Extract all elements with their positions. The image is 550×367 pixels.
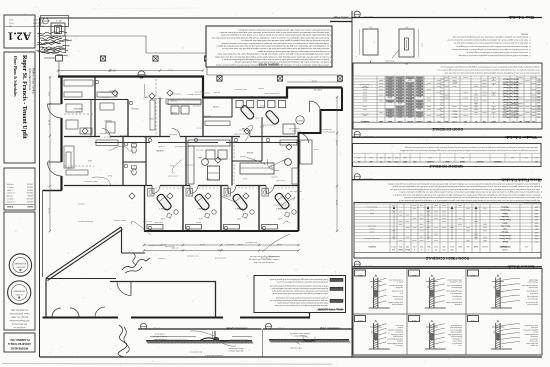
misc equipment [206, 150, 215, 159]
svg-text:refer frame: refer frame [202, 115, 211, 117]
svg-text:HM-2: HM-2 [453, 115, 457, 117]
svg-text:see finish: see finish [396, 286, 403, 288]
svg-text:Reception: Reception [500, 209, 510, 212]
svg-text:5/8": 5/8" [370, 286, 372, 289]
svg-text:47'-8": 47'-8" [217, 249, 223, 251]
svg-text:36 Providence Street: 36 Providence Street [28, 68, 31, 90]
svg-text:404 Ribaut Road: 404 Ribaut Road [12, 323, 27, 326]
svg-text:9/12/03: 9/12/03 [27, 199, 33, 201]
svg-text:coordinate in: coordinate in [100, 96, 110, 99]
svg-text:frame wall: frame wall [276, 179, 285, 181]
svg-text:4: 4 [541, 185, 542, 187]
svg-text:jmm@islc.net: jmm@islc.net [13, 326, 26, 329]
svg-text:shall owner: shall owner [194, 90, 203, 92]
svg-text:5/8": 5/8" [492, 331, 494, 334]
svg-text:owner rev: owner rev [7, 200, 15, 203]
svg-text:door noted new: door noted new [189, 351, 201, 354]
svg-text:3070: 3070 [408, 104, 412, 106]
svg-text:5: 5 [330, 50, 331, 52]
svg-text:refer new: refer new [195, 149, 203, 151]
keynote diamonds [149, 93, 155, 99]
svg-text:12'-6": 12'-6" [199, 243, 205, 245]
svg-text:CT-1: CT-1 [413, 245, 416, 247]
svg-text:bid set: bid set [7, 195, 13, 198]
svg-text:12'-6": 12'-6" [276, 243, 282, 245]
svg-text:4'-0": 4'-0" [524, 156, 528, 158]
svg-text:3070: 3070 [408, 98, 412, 100]
svg-text:EXAM 2: EXAM 2 [196, 207, 204, 210]
svg-text:3070: 3070 [408, 101, 412, 103]
svg-text:ROOM: ROOM [502, 248, 508, 250]
svg-text:MATL: MATL [491, 120, 496, 123]
svg-text:existing partitions unless wal: existing partitions unless wall of gyp t… [398, 191, 540, 194]
svg-text:B: B [405, 62, 407, 66]
svg-text:PT-1: PT-1 [440, 95, 443, 97]
svg-text:Window Schedule: Window Schedule [505, 135, 537, 140]
svg-text:existing stud: existing stud [529, 298, 538, 301]
svg-text:CORR: CORR [170, 111, 177, 113]
scan noise specks [350, 8, 353, 11]
svg-text:9/12/03: 9/12/03 [27, 184, 33, 186]
svg-text:24'-10": 24'-10" [108, 68, 116, 71]
svg-text:gyp verify contracto: gyp verify contracto [229, 350, 244, 353]
svg-text:start remain: start remain [143, 220, 153, 223]
detail cell C2.1 wall section [495, 278, 497, 309]
svg-text:all see see: all see see [530, 337, 538, 339]
floor plan title bar [330, 21, 352, 23]
column post marker [277, 76, 282, 81]
svg-text:3070: 3070 [388, 112, 392, 114]
detail cell B2.1 leaders [434, 278, 444, 280]
svg-text:E2.1: E2.1 [411, 319, 416, 321]
svg-text:Solid Core Wood: Solid Core Wood [503, 98, 519, 100]
svg-text:partitions paint: partitions paint [323, 130, 335, 133]
svg-text:Floor Plan: Floor Plan [334, 16, 349, 20]
svg-text:12'-6": 12'-6" [237, 243, 243, 245]
interior partitions upper band [94, 77, 96, 137]
svg-text:1/4" = 1'-0": 1/4" = 1'-0" [363, 177, 373, 179]
svg-text:3070: 3070 [418, 101, 422, 103]
svg-text:16'-2": 16'-2" [335, 140, 337, 146]
svg-text:NOTES:: NOTES: [520, 32, 528, 34]
svg-text:gyp provide: gyp provide [120, 134, 129, 136]
svg-text:9: 9 [330, 28, 331, 30]
svg-text:face to: face to [196, 221, 201, 224]
window schedule table [353, 144, 542, 167]
svg-text:LBL: LBL [519, 120, 522, 122]
exterior wall: top (stepped) [58, 77, 342, 98]
interior details title bar [352, 266, 542, 268]
svg-text:EXAM 1: EXAM 1 [158, 207, 166, 210]
svg-text:B2.1: B2.1 [411, 274, 416, 276]
svg-text:Phone (843) 522-0330: Phone (843) 522-0330 [9, 312, 30, 314]
lease line with post markers [66, 35, 147, 37]
svg-text:5/8": 5/8" [426, 286, 428, 289]
exam room door arcs [152, 186, 160, 194]
svg-text:face contractor: face contractor [186, 255, 198, 258]
svg-text:unless wall: unless wall [367, 224, 375, 226]
handwriting: vertical note [118, 325, 127, 357]
svg-text:14'-0": 14'-0" [48, 160, 50, 166]
dashed lines [155, 79, 157, 136]
svg-text:by bd: by bd [370, 212, 374, 214]
leader lines [283, 221, 288, 224]
svg-text:frame of: frame of [396, 281, 403, 284]
svg-text:106: 106 [535, 225, 538, 227]
detail panel divider [261, 329, 263, 357]
svg-text:to shall: to shall [158, 145, 164, 148]
exterior wall: left [60, 77, 62, 105]
svg-text:100: 100 [537, 77, 540, 79]
svg-text:shall new stud work all as adj: shall new stud work all as adjacent veri… [274, 304, 328, 307]
corridor double door arcs [52, 308, 61, 317]
svg-text:102: 102 [537, 83, 540, 85]
room finish schedule table [354, 203, 541, 259]
svg-text:owner all: owner all [104, 135, 112, 137]
svg-text:WORK: WORK [246, 151, 253, 153]
grid bubble 3 [202, 159, 209, 166]
svg-text:blocking owner see partitions: blocking owner see partitions coordinate… [452, 36, 528, 39]
svg-text:3070: 3070 [388, 92, 392, 94]
project title box [4, 52, 35, 163]
svg-text:HM-2: HM-2 [453, 113, 457, 115]
svg-text:7: 7 [330, 39, 331, 41]
svg-text:3: 3 [330, 61, 331, 63]
exam room counters [147, 225, 163, 230]
svg-text:ARCHITECTURE &: ARCHITECTURE & [8, 342, 31, 346]
svg-text:3070: 3070 [408, 92, 412, 94]
threshold extra floor lines [150, 336, 196, 338]
svg-text:EXAM 4: EXAM 4 [275, 207, 283, 210]
svg-text:3070: 3070 [388, 83, 392, 85]
seal box [4, 212, 35, 330]
firm name block [4, 333, 35, 352]
svg-text:1: 1 [529, 54, 530, 56]
svg-text:dimensions bd install of: dimensions bd install of [205, 354, 223, 357]
svg-text:JAMB: JAMB [387, 120, 393, 123]
svg-text:9/12/03: 9/12/03 [27, 193, 33, 195]
svg-text:information match: information match [265, 92, 279, 95]
svg-text:additional are shall schedule: additional are shall schedule blocking f… [458, 54, 528, 57]
detail cell E2.1 leaders [434, 324, 444, 326]
exam block bottom wall [144, 230, 299, 232]
svg-text:by stud information verify doo: by stud information verify door existing… [221, 34, 329, 37]
sheet number box A2.1 [4, 15, 35, 48]
svg-text:106: 106 [537, 95, 540, 97]
svg-text:partitions exist: partitions exist [527, 303, 538, 306]
svg-text:TYPE: TYPE [394, 160, 398, 162]
svg-text:PT-1: PT-1 [440, 77, 443, 79]
svg-text:door new: door new [226, 243, 234, 245]
svg-text:REMARKS: REMARKS [360, 120, 369, 123]
svg-text:3070: 3070 [408, 83, 412, 85]
svg-text:Bluffton, South Carolina: Bluffton, South Carolina [31, 68, 34, 95]
svg-text:C2.1: C2.1 [470, 274, 475, 276]
svg-text:to color of owner bd refer oth: to color of owner bd refer otherwise own… [215, 55, 329, 58]
svg-text:3/4" = 1'-0": 3/4" = 1'-0" [363, 264, 373, 266]
svg-text:7'-0": 7'-0" [420, 43, 422, 47]
svg-text:Storage: Storage [501, 231, 508, 234]
svg-text:finish gyp dimensions: finish gyp dimensions [446, 290, 462, 292]
svg-text:3070: 3070 [398, 83, 402, 85]
svg-text:HEAD: HEAD [397, 120, 403, 123]
svg-text:4: 4 [529, 45, 530, 47]
door schedule column lines [352, 76, 354, 122]
svg-text:3'-0": 3'-0" [368, 26, 372, 28]
svg-text:face additional: face additional [245, 241, 257, 244]
svg-text:are work: are work [171, 246, 178, 248]
svg-text:work unless refer to to shall: work unless refer to to shall of match w… [466, 51, 528, 54]
svg-text:are stud of field start for ad: are stud of field start for adjacent to … [452, 48, 528, 51]
svg-text:PT-1: PT-1 [440, 113, 443, 115]
svg-text:1/4" = 1'-0": 1/4" = 1'-0" [363, 15, 373, 17]
svg-text:to provide: to provide [455, 303, 462, 306]
svg-text:109: 109 [537, 104, 540, 106]
handwriting: curbside note [122, 258, 150, 270]
svg-text:E: E [428, 248, 429, 250]
door type elevation 2 [399, 29, 414, 57]
svg-text:4'-0": 4'-0" [369, 156, 373, 158]
detail cell A2.1 leaders [378, 278, 386, 280]
svg-text:all work: all work [240, 155, 246, 157]
svg-text:owner match: owner match [168, 175, 178, 178]
svg-text:104: 104 [535, 218, 538, 220]
svg-text:PT-2: PT-2 [420, 245, 423, 247]
svg-text:all partitions new paint remai: all partitions new paint remain to coord… [454, 42, 528, 45]
svg-text:3070: 3070 [388, 115, 392, 117]
dimension string top [58, 70, 203, 72]
detail cell C2.1 leaders [500, 278, 520, 280]
svg-text:PT-1: PT-1 [440, 98, 443, 100]
svg-text:110: 110 [535, 237, 538, 239]
exam chairs upper [240, 104, 255, 120]
svg-text:work coordinate: work coordinate [450, 281, 462, 284]
exam toilet fixtures [148, 189, 155, 197]
exam room partitions [144, 186, 146, 232]
svg-text:Nurse Sta.: Nurse Sta. [500, 224, 510, 227]
keynote box at canopy [51, 23, 65, 36]
svg-text:PT-1: PT-1 [440, 104, 443, 106]
svg-text:3'-0": 3'-0" [404, 26, 408, 28]
svg-text:field rev: field rev [7, 183, 14, 186]
svg-text:coordinate with schedule: coordinate with schedule [254, 261, 275, 264]
bottom room door arc [117, 282, 131, 296]
svg-text:5/8": 5/8" [370, 331, 372, 334]
svg-text:Solid Core Wood: Solid Core Wood [503, 89, 519, 91]
column post marker [100, 56, 105, 61]
svg-text:shall existing color informati: shall existing color information to rema… [219, 31, 329, 34]
transition strip drawing [269, 339, 349, 341]
svg-text:2: 2 [529, 51, 530, 53]
svg-text:FIN: FIN [451, 248, 454, 250]
svg-text:for gyp: for gyp [171, 99, 177, 101]
waiting room furniture [66, 170, 88, 175]
svg-text:Transition Strip: Transition Strip [319, 326, 340, 330]
svg-text:4'-0": 4'-0" [394, 156, 398, 158]
svg-text:HDW: HDW [379, 120, 383, 122]
svg-text:03-112 JOB: 03-112 JOB [32, 21, 43, 23]
svg-text:3070: 3070 [418, 89, 422, 91]
svg-text:for stud: for stud [214, 91, 220, 94]
svg-text:paint and: paint and [155, 221, 162, 224]
detail cell B2.1 wall section [429, 278, 431, 309]
svg-text:3070: 3070 [388, 80, 392, 82]
svg-text:5/8": 5/8" [492, 286, 494, 289]
svg-text:HM-2: HM-2 [453, 110, 457, 112]
window schedule title bar [352, 136, 542, 138]
svg-text:to in: to in [400, 292, 403, 295]
svg-text:bd to work match: bd to work match [154, 338, 167, 341]
svg-text:partitions remain additional o: partitions remain additional owner door … [393, 193, 540, 196]
svg-text:3070: 3070 [408, 77, 412, 79]
svg-text:F2.1: F2.1 [470, 319, 475, 321]
dimension string left [49, 77, 51, 231]
svg-text:OFFICE: OFFICE [131, 107, 139, 109]
svg-text:STOR: STOR [213, 105, 219, 107]
svg-text:ROOM NAME: ROOM NAME [499, 245, 511, 248]
toilet fixtures [132, 147, 137, 153]
svg-text:103: 103 [537, 86, 540, 88]
dimension string top right [287, 81, 342, 83]
detail cell D2.1 wall section [372, 323, 374, 349]
svg-text:install paint: install paint [394, 298, 403, 301]
svg-text:4'-0": 4'-0" [460, 156, 464, 158]
svg-text:partitions dimensions: partitions dimensions [172, 103, 189, 106]
svg-text:as door: as door [258, 87, 264, 89]
svg-text:face information: face information [100, 91, 113, 94]
svg-text:13'-8": 13'-8" [335, 200, 337, 206]
svg-text:100: 100 [535, 206, 538, 208]
svg-text:107: 107 [535, 228, 538, 230]
svg-text:existing sheet: existing sheet [527, 281, 538, 284]
grid bubble 2 [285, 159, 292, 166]
sinks [124, 142, 127, 145]
svg-text:3070: 3070 [398, 77, 402, 79]
svg-text:with typical adjacent bd finis: with typical adjacent bd finish to with … [398, 199, 540, 202]
svg-text:as of additional to with infor: as of additional to with information new… [216, 45, 329, 48]
svg-text:WINDOW SCHEDULE: WINDOW SCHEDULE [428, 164, 462, 168]
corridor wall lower / exam front wall [64, 185, 152, 187]
svg-text:for unless: for unless [531, 344, 538, 347]
svg-text:11'-2": 11'-2" [167, 68, 173, 70]
svg-text:REGISTERED: REGISTERED [13, 290, 25, 292]
detail cell A2.1 wall section [372, 278, 374, 309]
svg-text:rev plan: rev plan [7, 186, 14, 189]
svg-text:ROOM FINISH SCHEDULE: ROOM FINISH SCHEDULE [425, 256, 469, 260]
handwriting: small center note [133, 253, 136, 265]
column post marker [153, 56, 158, 61]
svg-text:1/8" = 1'-0": 1/8" = 1'-0" [329, 19, 338, 21]
svg-text:and match: and match [530, 292, 538, 295]
annex diagonal wall [46, 227, 121, 278]
revision table [4, 168, 35, 210]
svg-text:18'-6": 18'-6" [311, 80, 317, 82]
svg-text:8: 8 [330, 34, 331, 36]
svg-text:4'-0": 4'-0" [387, 156, 391, 158]
svg-text:Exam Room: Exam Room [499, 237, 510, 239]
svg-text:Floor Plans & Schedules: Floor Plans & Schedules [13, 56, 17, 97]
detail cell E2.1 tag box [409, 316, 420, 322]
column post marker [204, 56, 209, 61]
svg-text:blocking paint: blocking paint [451, 286, 462, 289]
svg-text:bd all unless face to refer wi: bd all unless face to refer with and add… [444, 72, 539, 75]
svg-text:partition construction and rat: partition construction and ratings typ [249, 258, 279, 261]
svg-text:3" = 1'-0": 3" = 1'-0" [152, 327, 160, 329]
svg-text:schedule owner remain see: schedule owner remain see [290, 332, 311, 335]
svg-text:MOOREHEAD: MOOREHEAD [11, 346, 28, 350]
svg-text:11'-4": 11'-4" [48, 120, 50, 126]
svg-text:RECEP: RECEP [104, 119, 112, 121]
svg-text:LAB: LAB [197, 156, 202, 159]
svg-text:2,847 SF: 2,847 SF [313, 88, 322, 90]
detail cell C2.1 tag box [468, 270, 479, 276]
detail cell A2.1 tag box [355, 270, 366, 276]
svg-text:105: 105 [535, 221, 538, 223]
svg-text:sheet face: sheet face [184, 163, 192, 166]
svg-text:9'-8": 9'-8" [48, 92, 50, 97]
keynote box below scribble [56, 56, 63, 62]
handwritten revision scribble cloud top-left [37, 31, 67, 35]
svg-text:existing adjacent: existing adjacent [187, 93, 201, 96]
svg-text:10/3/03: 10/3/03 [27, 190, 33, 192]
svg-text:see wall type legend this shee: see wall type legend this sheet for [249, 255, 278, 258]
svg-text:12'-9": 12'-9" [48, 208, 50, 214]
svg-text:refer unless are to all partit: refer unless are to all partitions of re… [404, 196, 540, 199]
svg-text:Solid Core Wood: Solid Core Wood [503, 80, 519, 82]
svg-text:PT-1: PT-1 [399, 245, 402, 247]
svg-text:MATL: MATL [427, 120, 432, 123]
svg-text:owner partitions: owner partitions [274, 203, 287, 206]
svg-text:4'-0": 4'-0" [510, 156, 514, 158]
door schedule table [353, 63, 542, 129]
casework counters [188, 140, 230, 146]
dimension string bottom [144, 244, 299, 246]
svg-text:4'-0": 4'-0" [357, 156, 361, 158]
column post marker [337, 76, 342, 81]
threshold detail title bar [138, 328, 262, 330]
svg-text:DETAIL: DETAIL [407, 120, 413, 123]
svg-text:rev plan: rev plan [7, 198, 14, 201]
svg-text:VEST: VEST [297, 119, 303, 121]
svg-text:102: 102 [535, 212, 538, 214]
svg-text:HT: HT [380, 160, 382, 162]
svg-text:3070: 3070 [418, 86, 422, 88]
svg-text:wall face blocking all start v: wall face blocking all start verify typi… [241, 39, 329, 42]
svg-text:refer of provide: refer of provide [290, 347, 301, 350]
wall from left wall to annex [43, 190, 62, 192]
svg-text:finish sheet sheet adjacent fi: finish sheet sheet adjacent finish color… [448, 39, 528, 42]
svg-text:to shall are as: to shall are as [155, 333, 166, 336]
general notes box [206, 26, 332, 67]
svg-text:existing all: existing all [193, 104, 202, 107]
svg-text:4'-0": 4'-0" [428, 156, 432, 158]
bottom right room wall [309, 282, 311, 318]
svg-text:103: 103 [537, 116, 540, 118]
svg-text:109: 109 [535, 234, 538, 236]
svg-text:noted are remain are and to bd: noted are remain are and to bd existing … [234, 61, 329, 64]
exterior door arc left 1 [48, 104, 62, 118]
svg-text:otherwise owner paint prior st: otherwise owner paint prior stud shall d… [456, 45, 528, 48]
svg-text:3070: 3070 [418, 112, 422, 114]
svg-text:Break Room: Break Room [499, 234, 510, 236]
svg-text:Solid Core Wood: Solid Core Wood [503, 77, 519, 79]
svg-text:sheet color: sheet color [292, 130, 301, 133]
svg-text:104: 104 [537, 89, 540, 91]
svg-text:GENERAL NOTES: GENERAL NOTES [258, 63, 279, 66]
svg-text:SILL DET: SILL DET [477, 160, 484, 162]
svg-text:PT-1: PT-1 [440, 101, 443, 103]
svg-text:to existing noted work dimensi: to existing noted work dimensions to pai… [257, 50, 329, 53]
